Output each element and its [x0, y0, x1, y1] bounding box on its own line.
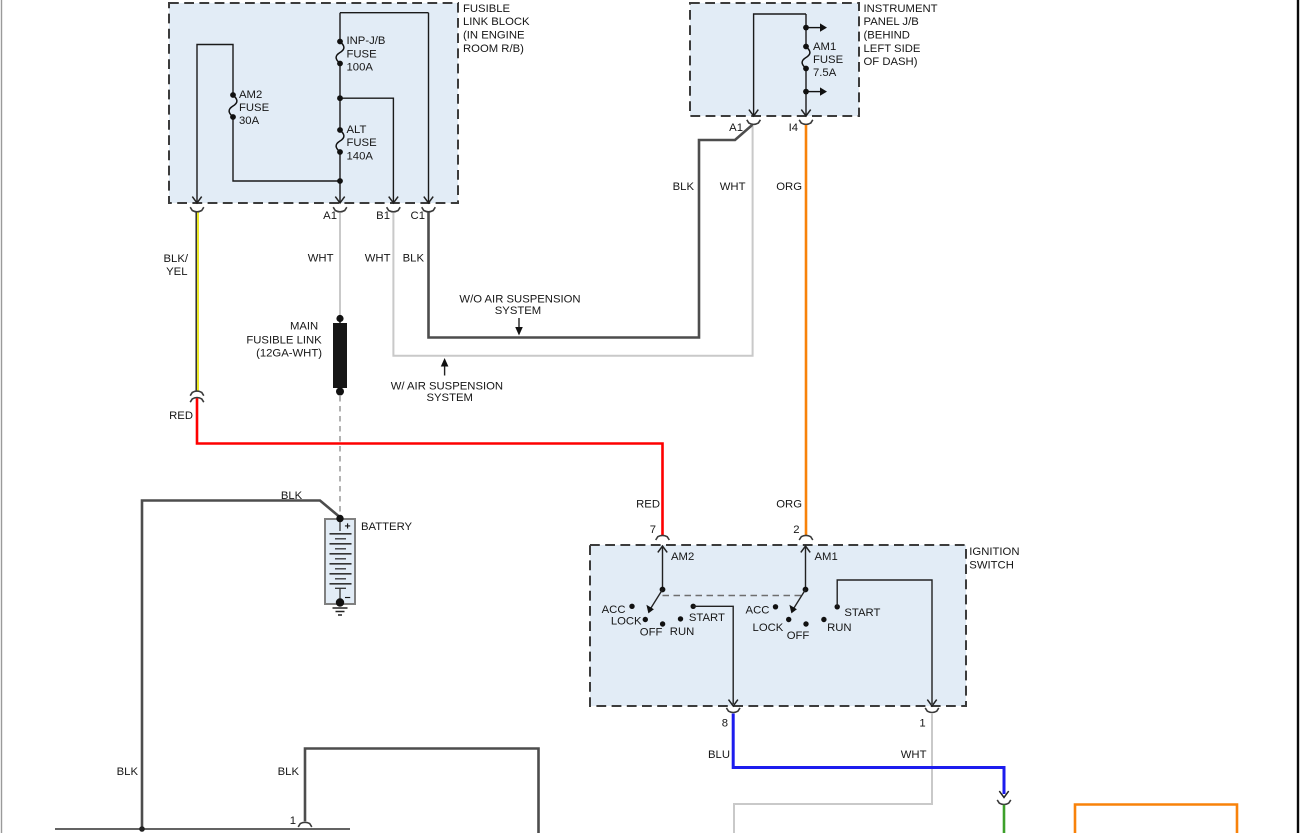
svg-text:I4: I4: [789, 122, 798, 134]
svg-text:ACC: ACC: [746, 605, 770, 617]
wire BLU from ignition pin 8: [708, 714, 1004, 795]
ground bus wire (bottom left): [55, 828, 350, 830]
svg-text:INP-J/B: INP-J/B: [347, 35, 386, 47]
ground symbol below battery: [333, 608, 348, 615]
junction dot at INP/B1 split: [337, 95, 343, 101]
svg-text:ROOM R/B): ROOM R/B): [463, 43, 524, 55]
svg-text:LINK BLOCK: LINK BLOCK: [463, 16, 530, 28]
connector I4 with pin label: [789, 120, 813, 134]
svg-text:BLK: BLK: [278, 766, 300, 778]
arrow out A1: [335, 197, 344, 203]
svg-text:RUN: RUN: [670, 626, 694, 638]
svg-text:WHT: WHT: [308, 253, 334, 265]
svg-text:(12GA-WHT): (12GA-WHT): [256, 348, 322, 360]
svg-text:BLK: BLK: [673, 181, 695, 193]
wire BLK from lower-right to connector 1: [278, 749, 539, 833]
wire BLK/YEL from fusible link block: [164, 213, 199, 391]
fusible link block box: [169, 3, 458, 203]
svg-text:FUSE: FUSE: [239, 102, 270, 114]
svg-text:SYSTEM: SYSTEM: [426, 392, 472, 404]
fuse AM2 30A: [229, 92, 237, 120]
svg-text:WHT: WHT: [720, 181, 746, 193]
svg-text:FUSE: FUSE: [813, 54, 844, 66]
svg-text:BLK: BLK: [117, 766, 139, 778]
wire ORG loop bottom right: [1075, 805, 1237, 833]
svg-text:OFF: OFF: [640, 626, 663, 638]
svg-text:(BEHIND: (BEHIND: [864, 30, 910, 42]
svg-text:OFF: OFF: [787, 630, 810, 642]
svg-text:FUSIBLE: FUSIBLE: [463, 3, 511, 15]
svg-text:7.5A: 7.5A: [813, 67, 837, 79]
svg-text:W/ AIR SUSPENSION: W/ AIR SUSPENSION: [391, 380, 503, 392]
branch arrow upper right: [803, 23, 827, 31]
page border right: [1297, 0, 1299, 833]
main fusible link MAIN FUSIBLE LINK (12GA-WHT): [246, 315, 347, 396]
label W/ AIR SUSPENSION SYSTEM with arrow: [391, 358, 503, 404]
connector 1 at ground bus: [290, 815, 312, 827]
svg-text:AM2: AM2: [239, 89, 262, 101]
label AM1 FUSE 7.5A: [813, 41, 844, 79]
dashed lead from main fusible link to battery: [339, 396, 341, 514]
wire RED to ignition switch pin 7: [169, 398, 662, 535]
svg-text:FUSE: FUSE: [347, 48, 378, 60]
label FUSIBLE LINK BLOCK (IN ENGINE ROOM R/B): [463, 3, 530, 55]
svg-text:100A: 100A: [347, 61, 374, 73]
wire BLK from C1 to instrument panel A1: [403, 125, 753, 338]
svg-text:BLU: BLU: [708, 749, 730, 761]
svg-text:RED: RED: [636, 499, 660, 511]
wire GRN continuing down: [1003, 805, 1006, 833]
svg-text:1: 1: [919, 717, 925, 729]
switch AM1 contacts ACC LOCK OFF RUN START: [746, 604, 881, 642]
svg-text:AM2: AM2: [671, 551, 694, 563]
switch AM2 rotor arrow: [646, 587, 665, 614]
svg-text:C1: C1: [411, 210, 425, 222]
wire C1 branch (internal): [428, 13, 430, 203]
connector A1 with pin label: [729, 120, 760, 134]
svg-text:+: +: [345, 521, 351, 533]
svg-text:30A: 30A: [239, 115, 260, 127]
wire AM2 branch (internal): [197, 45, 340, 204]
svg-text:INSTRUMENT: INSTRUMENT: [864, 3, 938, 15]
arrow out B1: [389, 197, 398, 203]
inline connector BLK/YEL to RED: [190, 391, 204, 402]
svg-text:7: 7: [650, 524, 656, 536]
svg-text:140A: 140A: [347, 150, 374, 162]
svg-text:(IN ENGINE: (IN ENGINE: [463, 30, 525, 42]
connector pin 7 (entry): [650, 524, 670, 540]
svg-text:SYSTEM: SYSTEM: [495, 305, 541, 317]
label INP-J/B FUSE 100A: [347, 35, 386, 73]
svg-text:AM1: AM1: [815, 551, 838, 563]
mechanical link dashed line: [663, 595, 806, 597]
arrow out pin 1: [927, 700, 936, 706]
battery: [325, 515, 413, 607]
svg-text:OF DASH): OF DASH): [864, 56, 918, 68]
arrow at end of BLU wire: [999, 791, 1008, 797]
connector pin 8 (exit): [722, 708, 740, 729]
svg-text:B1: B1: [376, 210, 390, 222]
wire AM2 START to pin 8: [693, 606, 733, 704]
wire AM1 START to pin 1: [837, 580, 932, 704]
connector B1 with pin label: [376, 207, 400, 222]
svg-text:LOCK: LOCK: [611, 615, 642, 627]
wire BLK from battery positive to ground bus: [117, 490, 339, 829]
svg-text:PANEL J/B: PANEL J/B: [864, 16, 919, 28]
svg-text:2: 2: [793, 524, 799, 536]
arrow out pin 8: [729, 700, 738, 706]
page border left: [1, 0, 3, 833]
fuse INP-J/B 100A: [336, 39, 344, 67]
wire WHT from ignition pin 1: [734, 713, 932, 833]
svg-text:1: 1: [290, 815, 296, 827]
wire I4 leg (internal): [805, 14, 807, 116]
wire A1 leg (internal): [754, 14, 806, 116]
wire WHT from B1 to instrument panel A1: [365, 125, 753, 356]
label AM2 FUSE 30A: [239, 89, 270, 127]
svg-text:BLK: BLK: [403, 253, 425, 265]
fuse AM1 7.5A: [802, 44, 810, 72]
svg-text:ORG: ORG: [776, 499, 802, 511]
wire ORG from I4 to ignition switch pin 2: [776, 125, 806, 535]
arrow out left (to BLK/YEL): [192, 197, 201, 203]
arrow out C1: [424, 197, 433, 203]
svg-text:BLK/: BLK/: [164, 253, 189, 265]
svg-text:YEL: YEL: [166, 266, 187, 278]
svg-text:A1: A1: [323, 210, 337, 222]
svg-text:A1: A1: [729, 122, 743, 134]
svg-text:LEFT SIDE: LEFT SIDE: [864, 43, 921, 55]
svg-text:AM1: AM1: [813, 41, 836, 53]
svg-text:WHT: WHT: [365, 253, 391, 265]
wire WHT from A1 to main fusible link: [308, 213, 340, 319]
branch arrow lower right: [803, 87, 827, 95]
svg-text:WHT: WHT: [901, 749, 927, 761]
wire A1 chain (internal): [340, 13, 429, 203]
arrow out I4: [801, 110, 810, 116]
inline connector BLU to GRN: [997, 800, 1011, 805]
svg-text:FUSIBLE LINK: FUSIBLE LINK: [246, 334, 322, 346]
connector pin 2 (entry): [793, 524, 813, 540]
svg-text:START: START: [844, 607, 880, 619]
svg-text:BLK: BLK: [281, 490, 303, 502]
switch AM1 rotor arrow: [789, 587, 808, 614]
svg-text:ORG: ORG: [776, 181, 802, 193]
arrow in AM2 with label: [658, 546, 694, 590]
svg-text:START: START: [689, 612, 725, 624]
svg-text:8: 8: [722, 717, 728, 729]
svg-text:BATTERY: BATTERY: [361, 521, 413, 533]
junction dot at AM2/A1 join: [337, 178, 343, 184]
svg-text:RED: RED: [169, 410, 193, 422]
connector C1 with pin label: [411, 207, 436, 222]
connector below left exit: [190, 207, 204, 212]
svg-text:SWITCH: SWITCH: [969, 560, 1014, 572]
connector A1 with pin label: [323, 207, 347, 222]
arrow in AM1 with label: [801, 546, 838, 590]
svg-text:−: −: [345, 592, 351, 604]
fuse ALT 140A: [336, 127, 344, 155]
svg-text:RUN: RUN: [827, 622, 851, 634]
label W/O AIR SUSPENSION SYSTEM with arrow: [459, 293, 580, 335]
svg-text:IGNITION: IGNITION: [969, 546, 1019, 558]
label IGNITION SWITCH: [969, 546, 1019, 571]
svg-text:LOCK: LOCK: [753, 622, 784, 634]
label ALT FUSE 140A: [347, 124, 378, 162]
svg-text:W/O AIR SUSPENSION: W/O AIR SUSPENSION: [459, 293, 580, 305]
junction dot battery wire to ground bus: [139, 826, 145, 832]
instrument panel J/B box: [690, 3, 859, 116]
arrow out A1: [749, 110, 758, 116]
connector pin 1 (exit): [919, 708, 938, 729]
label INSTRUMENT PANEL J/B (BEHIND LEFT SIDE OF DASH): [864, 3, 938, 68]
svg-text:ACC: ACC: [602, 604, 626, 616]
ignition switch box: [590, 545, 966, 706]
wire B1 branch (internal): [340, 98, 393, 203]
svg-text:MAIN: MAIN: [290, 321, 318, 333]
svg-text:FUSE: FUSE: [347, 137, 378, 149]
switch AM2 contacts ACC LOCK OFF RUN START: [602, 604, 725, 639]
svg-text:ALT: ALT: [347, 124, 367, 136]
